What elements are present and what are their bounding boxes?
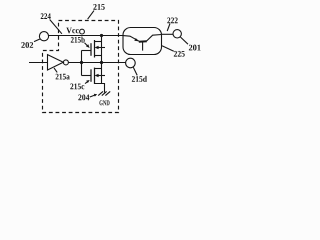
node B dot [100,61,103,64]
Vcc label [66,28,79,34]
label 225 [174,51,185,57]
label 222 [167,18,177,24]
label 215d [132,76,147,82]
label 215 [93,4,104,10]
node A dot [80,61,83,64]
label 215c [70,84,84,90]
label 202 [21,42,33,48]
op-amp U 215a (buffer with bubble) [48,55,64,70]
transistor Q 225 (PNP inside box) [123,35,162,51]
leader for 224 [50,20,62,34]
terminal circle 215d [126,58,136,68]
leader arrow for 204 [90,95,96,97]
label 204 [78,94,89,100]
wire: Vcc rail from terminal to box 222 [49,35,123,37]
wire: amp input [29,62,48,64]
node: rail junction dot [100,34,103,37]
leader for 215d [133,67,137,75]
leader for 225 [162,46,174,51]
label GND [99,100,109,105]
wire: common gate vertical [81,51,83,76]
label 224 [41,13,51,19]
leader for 201 [180,37,188,44]
leader for 202 [34,39,40,42]
leader for 222 [167,24,170,32]
leader for 215a [54,68,57,73]
package box 222 (rounded) [123,28,162,55]
label 215b [71,37,85,43]
wire: box to terminal 201 [162,33,174,35]
leader arrow for 215c [85,81,88,83]
label 215a [56,74,70,80]
input terminal circle (202) [39,32,48,41]
wire: amp output to terminal 215d [68,62,125,64]
Vcc terminal circle [80,29,85,34]
label 201 [189,45,201,51]
leader arrow for 215b [85,43,89,47]
leader for 215 [88,11,94,20]
transistor Q 215b (PMOS) [82,36,106,63]
terminal circle 201 [173,30,181,38]
ground [98,91,110,95]
transistor Q 215c (NMOS) [82,63,106,93]
dashed box 215 (stepped outline) [43,21,119,113]
